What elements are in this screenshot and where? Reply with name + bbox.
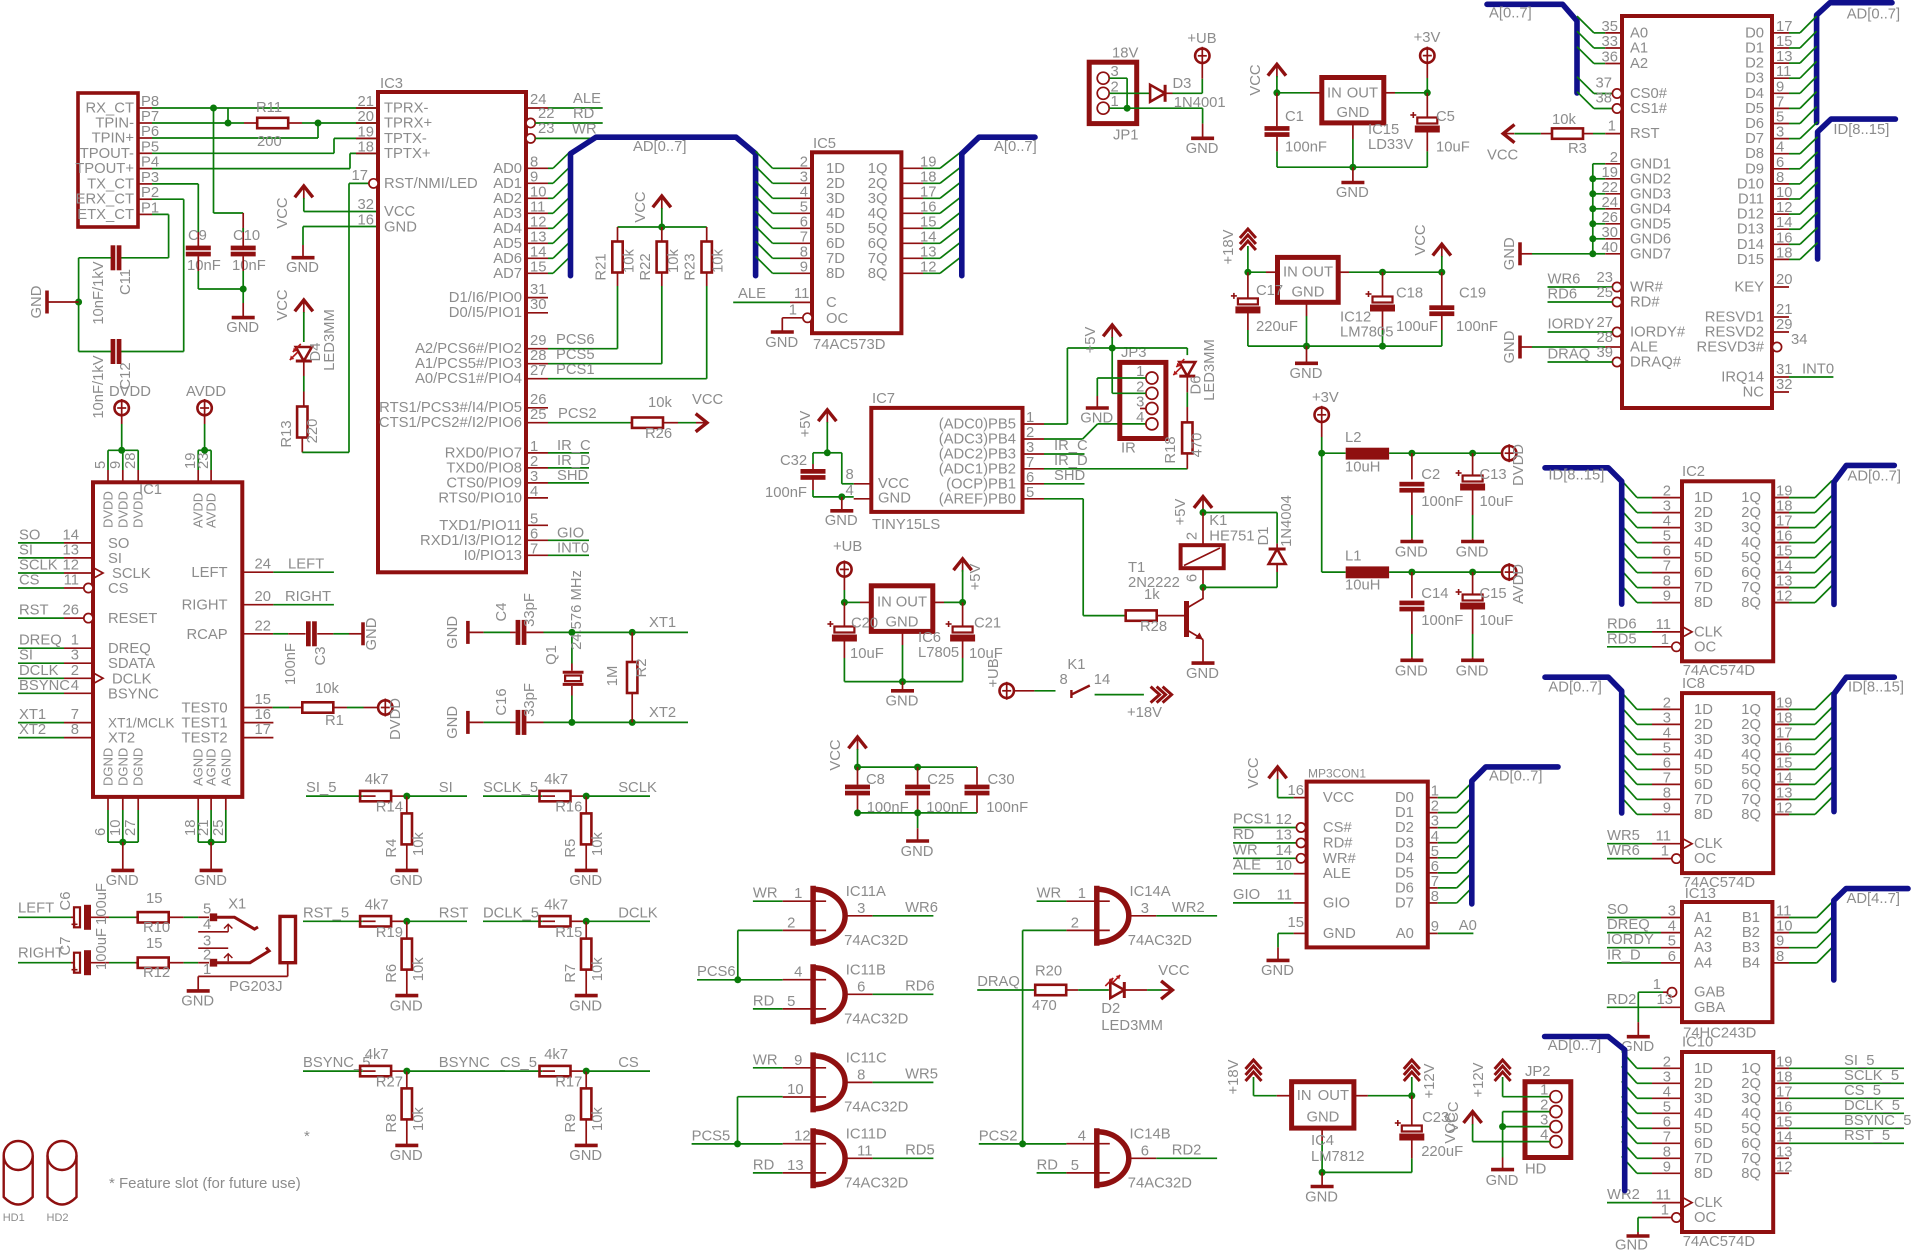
svg-text:RST: RST (1630, 126, 1660, 142)
svg-text:10k: 10k (411, 957, 427, 981)
svg-text:HD2: HD2 (47, 1212, 69, 1224)
svg-text:6: 6 (1185, 574, 1201, 582)
svg-text:WR: WR (572, 122, 597, 138)
svg-text:+5V: +5V (968, 564, 984, 591)
svg-text:R14: R14 (376, 800, 403, 816)
svg-text:XT1/MCLK: XT1/MCLK (108, 716, 174, 731)
svg-text:6: 6 (1663, 544, 1671, 560)
svg-text:37: 37 (1596, 76, 1612, 92)
svg-text:5Q: 5Q (868, 221, 888, 237)
svg-text:3: 3 (1026, 440, 1034, 456)
svg-text:RESVD1: RESVD1 (1705, 310, 1764, 326)
svg-text:29: 29 (1776, 317, 1792, 333)
svg-text:8Q: 8Q (1741, 807, 1761, 823)
svg-text:AD[0..7]: AD[0..7] (1847, 7, 1900, 23)
svg-text:AD[0..7]: AD[0..7] (633, 139, 686, 155)
svg-text:OUT: OUT (1318, 1088, 1349, 1104)
svg-text:R20: R20 (1035, 964, 1062, 980)
svg-text:2Q: 2Q (1741, 1076, 1761, 1092)
svg-text:C14: C14 (1421, 586, 1448, 602)
svg-text:4k7: 4k7 (365, 897, 389, 913)
svg-text:10uH: 10uH (1345, 460, 1380, 476)
svg-text:VCC: VCC (1413, 224, 1429, 256)
svg-text:LED3MM: LED3MM (322, 309, 338, 371)
svg-text:C4: C4 (494, 603, 510, 622)
svg-text:11: 11 (64, 573, 79, 589)
svg-text:PCS5: PCS5 (692, 1128, 731, 1144)
svg-text:1Q: 1Q (1741, 490, 1761, 506)
svg-text:7Q: 7Q (1741, 792, 1761, 808)
svg-text:X1: X1 (228, 897, 246, 913)
svg-text:220uF: 220uF (1421, 1144, 1463, 1160)
svg-text:6: 6 (800, 214, 808, 230)
svg-text:GND5: GND5 (1630, 216, 1671, 232)
svg-text:LEFT: LEFT (288, 557, 324, 573)
svg-text:DCLK: DCLK (112, 671, 152, 687)
svg-text:20: 20 (255, 589, 271, 605)
svg-text:C19: C19 (1459, 285, 1486, 301)
svg-text:WR6: WR6 (1607, 843, 1640, 859)
svg-text:PCS1: PCS1 (556, 362, 595, 378)
svg-text:C7: C7 (58, 937, 74, 956)
svg-text:TPIN-: TPIN- (95, 116, 134, 132)
svg-text:TXD1/PIO11: TXD1/PIO11 (439, 518, 522, 534)
svg-text:7: 7 (1663, 559, 1671, 575)
svg-text:CS0#: CS0# (1630, 86, 1668, 102)
svg-text:VCC: VCC (1487, 147, 1519, 163)
svg-text:R18: R18 (1163, 436, 1179, 463)
svg-text:GND: GND (569, 873, 602, 889)
svg-text:RD: RD (1037, 1157, 1058, 1173)
svg-text:2: 2 (530, 454, 538, 470)
svg-text:WR: WR (753, 1052, 778, 1068)
svg-text:9: 9 (1663, 800, 1671, 816)
svg-text:5: 5 (93, 461, 109, 469)
svg-text:+UB: +UB (986, 658, 1002, 687)
svg-text:SHD: SHD (557, 468, 588, 484)
svg-text:DCLK: DCLK (19, 663, 59, 679)
svg-text:+3V: +3V (1312, 390, 1339, 406)
svg-text:VCC: VCC (275, 197, 291, 229)
svg-text:1: 1 (1431, 784, 1439, 800)
svg-text:4: 4 (1668, 919, 1676, 935)
svg-text:8: 8 (1060, 672, 1068, 688)
svg-text:IORDY: IORDY (1607, 932, 1654, 948)
svg-text:7D: 7D (1694, 580, 1713, 596)
svg-text:GND: GND (1290, 366, 1323, 382)
svg-text:10uF: 10uF (850, 646, 884, 662)
svg-text:TINY15LS: TINY15LS (872, 517, 940, 533)
svg-text:16: 16 (920, 199, 936, 215)
svg-text:100nF: 100nF (1421, 613, 1463, 629)
svg-text:DREQ: DREQ (1607, 917, 1650, 933)
svg-text:4D: 4D (1694, 1106, 1713, 1122)
svg-text:11: 11 (794, 286, 809, 302)
svg-text:GND: GND (1080, 410, 1113, 426)
svg-text:RST_5: RST_5 (1844, 1128, 1890, 1144)
svg-text:5: 5 (1776, 110, 1784, 126)
svg-text:8: 8 (800, 244, 808, 260)
svg-text:10uF: 10uF (1436, 139, 1470, 155)
svg-text:5: 5 (530, 511, 538, 527)
svg-text:R2: R2 (634, 659, 650, 678)
svg-text:C13: C13 (1480, 467, 1507, 483)
svg-text:+18V: +18V (1127, 705, 1162, 721)
svg-text:3Q: 3Q (1741, 732, 1761, 748)
svg-text:WR: WR (1037, 886, 1062, 902)
svg-text:6D: 6D (1694, 777, 1713, 793)
svg-text:14: 14 (920, 229, 936, 245)
svg-text:IC8: IC8 (1682, 676, 1705, 692)
svg-text:GND: GND (390, 998, 423, 1014)
svg-text:21: 21 (1776, 302, 1792, 318)
svg-text:GND: GND (886, 615, 919, 631)
svg-text:2D: 2D (826, 176, 845, 192)
svg-text:24: 24 (1602, 195, 1618, 211)
svg-text:CLK: CLK (1694, 624, 1723, 640)
svg-text:5D: 5D (1694, 1121, 1713, 1137)
svg-text:BSYNC_5: BSYNC_5 (1844, 1113, 1911, 1129)
svg-text:6D: 6D (826, 236, 845, 252)
svg-text:8: 8 (1663, 1144, 1671, 1160)
svg-text:4k7: 4k7 (544, 1047, 568, 1063)
svg-text:C21: C21 (974, 616, 1001, 632)
svg-text:SI_5: SI_5 (306, 780, 336, 796)
svg-text:C18: C18 (1396, 285, 1423, 301)
svg-text:D13: D13 (1737, 222, 1764, 238)
svg-text:74AC573D: 74AC573D (813, 337, 885, 353)
svg-text:ETX_CT: ETX_CT (77, 207, 134, 223)
svg-text:GND: GND (1186, 141, 1219, 157)
svg-text:1: 1 (1608, 119, 1616, 135)
svg-text:KEY: KEY (1734, 280, 1764, 296)
svg-text:2: 2 (71, 663, 79, 679)
svg-text:ID[8..15]: ID[8..15] (1833, 122, 1889, 138)
svg-text:7Q: 7Q (1741, 580, 1761, 596)
svg-text:4: 4 (1663, 725, 1671, 741)
svg-text:10k: 10k (590, 957, 606, 981)
svg-text:RIGHT: RIGHT (182, 598, 228, 614)
svg-text:4Q: 4Q (1741, 535, 1761, 551)
svg-text:XT2: XT2 (649, 705, 676, 721)
svg-text:A0: A0 (1396, 926, 1414, 942)
svg-text:3: 3 (1663, 710, 1671, 726)
svg-text:100nF: 100nF (1285, 139, 1327, 155)
svg-text:74AC32D: 74AC32D (844, 1099, 908, 1115)
svg-text:13: 13 (920, 244, 936, 260)
svg-text:7: 7 (1776, 94, 1784, 110)
svg-text:7: 7 (71, 707, 79, 723)
svg-text:IRQ14: IRQ14 (1721, 370, 1764, 386)
svg-text:7D: 7D (1694, 792, 1713, 808)
svg-text:RTS1/PCS3#/I4/PIO5: RTS1/PCS3#/I4/PIO5 (379, 400, 522, 416)
svg-text:TPIN+: TPIN+ (92, 131, 134, 147)
svg-text:15: 15 (920, 214, 936, 230)
svg-text:7: 7 (1026, 455, 1034, 471)
svg-text:14: 14 (1276, 843, 1292, 859)
svg-text:(ADC2)PB3: (ADC2)PB3 (939, 447, 1016, 463)
svg-text:GND: GND (445, 616, 461, 649)
svg-text:12: 12 (63, 558, 79, 574)
svg-text:2: 2 (1026, 425, 1034, 441)
svg-text:PCS1: PCS1 (1233, 812, 1272, 828)
svg-text:AVDD: AVDD (1511, 564, 1527, 604)
svg-text:D5: D5 (1745, 101, 1764, 117)
svg-text:CS: CS (108, 581, 129, 597)
svg-text:AD[0..7]: AD[0..7] (1489, 769, 1542, 785)
svg-text:GND: GND (29, 286, 45, 319)
svg-text:100nF: 100nF (283, 643, 299, 685)
svg-text:6: 6 (93, 828, 109, 836)
svg-text:D5: D5 (1395, 865, 1414, 881)
svg-text:3: 3 (1141, 901, 1149, 917)
svg-text:14: 14 (1776, 215, 1792, 231)
svg-text:3: 3 (1668, 904, 1676, 920)
svg-text:LED3MM: LED3MM (1202, 339, 1218, 401)
svg-text:R10: R10 (143, 920, 170, 936)
svg-text:4k7: 4k7 (365, 1047, 389, 1063)
svg-text:15: 15 (255, 692, 271, 708)
svg-text:R1: R1 (325, 713, 344, 729)
svg-text:6D: 6D (1694, 1136, 1713, 1152)
svg-text:470: 470 (1190, 433, 1206, 458)
svg-text:2D: 2D (1694, 1076, 1713, 1092)
svg-text:4: 4 (794, 965, 802, 981)
svg-text:IC6: IC6 (918, 630, 941, 646)
svg-text:22: 22 (538, 106, 554, 122)
svg-text:AD5: AD5 (493, 236, 522, 252)
svg-text:5: 5 (1663, 740, 1671, 756)
svg-text:GND: GND (1615, 1238, 1648, 1251)
svg-text:6: 6 (530, 526, 538, 542)
svg-text:C11: C11 (118, 269, 134, 295)
svg-text:8: 8 (1663, 574, 1671, 590)
svg-text:SO: SO (19, 527, 40, 543)
svg-text:14: 14 (1094, 672, 1110, 688)
svg-text:8Q: 8Q (868, 266, 888, 282)
svg-text:PCS5: PCS5 (556, 347, 595, 363)
svg-text:D4: D4 (1745, 86, 1764, 102)
svg-text:A1/PCS5#/PIO3: A1/PCS5#/PIO3 (415, 356, 522, 372)
svg-text:74AC32D: 74AC32D (844, 933, 908, 949)
svg-text:C20: C20 (851, 616, 878, 632)
svg-text:5: 5 (1431, 844, 1439, 860)
svg-text:AD4: AD4 (493, 221, 522, 237)
svg-text:AD[0..7]: AD[0..7] (1848, 468, 1901, 484)
svg-text:6: 6 (1663, 1114, 1671, 1130)
svg-text:D1: D1 (1745, 41, 1764, 57)
svg-text:D2: D2 (1101, 1001, 1120, 1017)
svg-text:OC: OC (1694, 1210, 1717, 1226)
svg-text:11: 11 (1776, 64, 1791, 80)
svg-text:R11: R11 (256, 100, 282, 116)
svg-text:VCC: VCC (633, 191, 649, 223)
svg-text:74AC32D: 74AC32D (844, 1011, 908, 1027)
svg-text:1: 1 (1661, 1203, 1669, 1219)
svg-text:VCC: VCC (1443, 1112, 1459, 1144)
svg-text:34: 34 (1791, 332, 1807, 348)
svg-text:2: 2 (1431, 799, 1439, 815)
svg-text:10k: 10k (666, 248, 682, 272)
svg-text:4: 4 (1078, 1129, 1086, 1145)
svg-text:33: 33 (1602, 34, 1618, 50)
svg-text:D2: D2 (1745, 56, 1764, 72)
svg-text:10: 10 (1276, 858, 1292, 874)
svg-text:IC15: IC15 (1368, 122, 1399, 138)
svg-text:3D: 3D (826, 191, 845, 207)
svg-text:8: 8 (530, 154, 538, 170)
svg-text:3: 3 (71, 648, 79, 664)
svg-text:JP2: JP2 (1525, 1064, 1551, 1080)
svg-text:DVDD: DVDD (388, 698, 404, 740)
svg-text:D4: D4 (1395, 850, 1414, 866)
svg-text:6Q: 6Q (1741, 1136, 1761, 1152)
svg-text:200: 200 (257, 134, 282, 150)
svg-text:20: 20 (358, 109, 374, 125)
svg-text:GND: GND (1395, 663, 1428, 679)
svg-text:15: 15 (1776, 34, 1792, 50)
svg-text:VCC: VCC (275, 289, 291, 321)
svg-text:ERX_CT: ERX_CT (76, 192, 134, 208)
svg-text:13: 13 (1276, 827, 1292, 843)
svg-text:I0/PIO13: I0/PIO13 (464, 548, 522, 564)
svg-text:6: 6 (1663, 755, 1671, 771)
svg-text:470: 470 (1032, 998, 1057, 1014)
svg-text:IN: IN (1327, 85, 1342, 101)
svg-text:INT0: INT0 (557, 540, 589, 556)
svg-text:9: 9 (794, 1053, 802, 1069)
svg-text:R7: R7 (563, 964, 579, 983)
svg-text:LM7805: LM7805 (1340, 325, 1393, 341)
svg-text:GND: GND (1186, 666, 1219, 682)
svg-text:7D: 7D (826, 251, 845, 267)
svg-text:28: 28 (530, 348, 546, 364)
svg-text:27: 27 (123, 820, 139, 836)
svg-text:8: 8 (845, 467, 853, 483)
svg-text:9: 9 (1663, 1159, 1671, 1175)
svg-text:26: 26 (1602, 210, 1618, 226)
svg-text:ID[8..15]: ID[8..15] (1548, 467, 1604, 483)
svg-text:VCC: VCC (1323, 790, 1355, 806)
svg-text:WR#: WR# (1630, 280, 1664, 296)
svg-text:OUT: OUT (1302, 265, 1333, 281)
svg-text:C15: C15 (1480, 586, 1507, 602)
svg-text:13: 13 (530, 229, 546, 245)
svg-text:1: 1 (1026, 410, 1034, 426)
svg-text:10uH: 10uH (1345, 578, 1380, 594)
svg-text:8D: 8D (826, 266, 845, 282)
svg-text:40: 40 (1602, 240, 1618, 256)
svg-text:9: 9 (800, 259, 808, 275)
svg-text:GND6: GND6 (1630, 231, 1671, 247)
svg-text:SCLK_5: SCLK_5 (483, 780, 538, 796)
svg-text:18: 18 (920, 169, 936, 185)
svg-text:12: 12 (1276, 812, 1292, 828)
svg-text:RD: RD (753, 1157, 774, 1173)
svg-text:A[0..7]: A[0..7] (994, 139, 1037, 155)
svg-text:9: 9 (1663, 589, 1671, 605)
svg-text:2Q: 2Q (1741, 505, 1761, 521)
svg-text:D6: D6 (1395, 880, 1414, 896)
svg-text:4D: 4D (826, 206, 845, 222)
svg-text:2: 2 (1071, 915, 1079, 931)
svg-text:R26: R26 (645, 426, 672, 442)
svg-text:16: 16 (358, 213, 374, 229)
svg-text:CLK: CLK (1694, 1195, 1723, 1211)
svg-text:WR: WR (1233, 842, 1258, 858)
svg-text:3: 3 (530, 469, 538, 485)
svg-text:IC14A: IC14A (1130, 884, 1171, 900)
svg-text:D3: D3 (1173, 76, 1192, 92)
svg-text:PCS6: PCS6 (697, 964, 736, 980)
svg-text:11: 11 (530, 199, 545, 215)
svg-text:TPOUT-: TPOUT- (80, 146, 134, 162)
svg-text:R28: R28 (1140, 619, 1167, 635)
svg-text:24.576 MHz: 24.576 MHz (569, 570, 585, 650)
svg-text:R22: R22 (638, 253, 654, 280)
svg-text:DVDD: DVDD (101, 491, 116, 528)
svg-text:2: 2 (1610, 150, 1618, 166)
svg-text:(OCP)PB1: (OCP)PB1 (946, 476, 1016, 492)
svg-text:7: 7 (1431, 874, 1439, 890)
svg-text:GND: GND (286, 260, 319, 276)
svg-text:ID[8..15]: ID[8..15] (1848, 679, 1904, 695)
svg-text:DVDD: DVDD (109, 384, 151, 400)
svg-text:7D: 7D (1694, 1151, 1713, 1167)
svg-text:33pF: 33pF (522, 593, 538, 627)
svg-text:VCC: VCC (692, 392, 724, 408)
svg-text:1D: 1D (1694, 702, 1713, 718)
svg-text:IR_D: IR_D (1607, 947, 1641, 963)
svg-text:IC14B: IC14B (1130, 1126, 1171, 1142)
svg-text:1: 1 (789, 303, 797, 319)
svg-text:8Q: 8Q (1741, 1166, 1761, 1182)
svg-text:8: 8 (71, 722, 79, 738)
svg-text:27: 27 (530, 363, 546, 379)
svg-text:DGND: DGND (115, 748, 130, 786)
svg-text:XT1: XT1 (19, 707, 46, 723)
svg-text:GIO: GIO (557, 525, 584, 541)
svg-text:RESVD3#: RESVD3# (1697, 340, 1765, 356)
svg-text:5: 5 (1026, 485, 1034, 501)
svg-text:17: 17 (1776, 19, 1792, 35)
svg-text:C1: C1 (1285, 109, 1304, 125)
svg-text:IR_C: IR_C (557, 438, 591, 454)
svg-text:XT2: XT2 (19, 722, 46, 738)
svg-text:XT1: XT1 (649, 615, 676, 631)
svg-text:6Q: 6Q (868, 236, 888, 252)
svg-text:16: 16 (1288, 783, 1304, 799)
svg-text:SI: SI (439, 780, 453, 796)
svg-text:VCC: VCC (1248, 64, 1264, 96)
svg-text:9: 9 (108, 461, 124, 469)
svg-text:BSYNC: BSYNC (108, 686, 159, 702)
svg-text:TX_CT: TX_CT (87, 176, 134, 192)
svg-text:100uF: 100uF (94, 928, 110, 970)
svg-text:GND: GND (1305, 1190, 1338, 1206)
svg-text:11: 11 (1656, 617, 1671, 633)
svg-text:ALE: ALE (1630, 340, 1658, 356)
svg-text:D9: D9 (1745, 161, 1764, 177)
svg-text:*: * (304, 1128, 310, 1145)
svg-text:+12V: +12V (1471, 1062, 1487, 1097)
svg-text:ALE: ALE (1323, 866, 1351, 882)
svg-text:+UB: +UB (833, 539, 862, 555)
svg-text:L1: L1 (1345, 548, 1361, 564)
svg-text:IN: IN (1297, 1088, 1312, 1104)
svg-text:SCLK_5: SCLK_5 (1844, 1068, 1899, 1084)
svg-text:1Q: 1Q (868, 161, 888, 177)
